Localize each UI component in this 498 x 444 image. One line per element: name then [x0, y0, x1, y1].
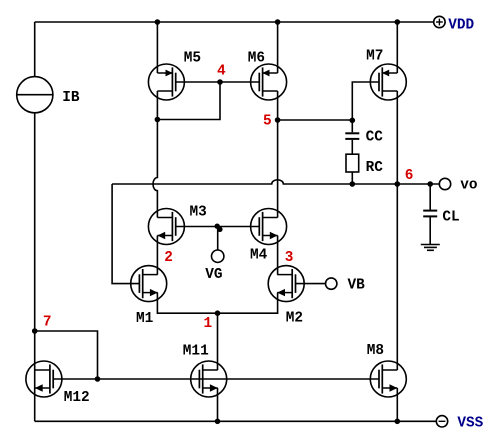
wire M8 source to bottom rail	[396, 388, 398, 421]
node 4	[217, 79, 223, 85]
terminal VDD	[434, 16, 445, 27]
wire node 6 to CL	[429, 184, 431, 210]
transistor M1	[131, 266, 167, 302]
wire column B: M6 source through node 5 to M4 drain	[277, 91, 279, 218]
bottom rail at M8	[395, 419, 401, 425]
wire M3-M4 gate line	[176, 226, 260, 228]
wire VG stem	[217, 227, 219, 250]
node 6 at RC	[350, 181, 356, 187]
svg-text:M12: M12	[64, 390, 90, 406]
transistor M11	[191, 361, 227, 397]
transistor M4	[251, 209, 287, 245]
svg-text:2: 2	[164, 250, 173, 266]
node on top rail at M6	[275, 19, 281, 25]
svg-text:M8: M8	[367, 343, 384, 359]
svg-text:M7: M7	[366, 49, 383, 65]
wire CC to RC	[351, 140, 353, 154]
wire column C: M7 source through node 6 to M8 drain	[396, 91, 398, 370]
wire RC to node 6	[351, 172, 353, 184]
terminal VB	[326, 278, 337, 289]
svg-text:vo: vo	[460, 177, 477, 193]
node 7 on rail	[32, 328, 38, 334]
node 4 jog junction	[155, 117, 161, 123]
svg-text:M2: M2	[286, 310, 303, 326]
wire column A: M5 source to M3 drain with hop over node-6 line	[153, 91, 157, 218]
wire M7 drain from rail	[396, 22, 398, 73]
capacitor CL	[423, 211, 437, 217]
transistor M12	[26, 361, 62, 397]
transistor M3	[148, 209, 184, 245]
wire M7 gate down to node 5	[352, 82, 379, 120]
svg-text:VG: VG	[205, 267, 222, 283]
svg-text:RC: RC	[366, 160, 384, 176]
resistor RC	[346, 154, 359, 172]
transistor M5	[148, 64, 184, 100]
capacitor CC	[345, 133, 359, 139]
wire node 3: M4 source to M2 drain	[277, 236, 279, 275]
node on top rail at M5	[155, 19, 161, 25]
current source IB	[17, 77, 53, 113]
bottom rail at M11	[215, 419, 221, 425]
svg-text:VSS: VSS	[457, 415, 483, 431]
wire node 1 drop to M11	[217, 313, 219, 370]
node 6 at CL	[427, 181, 433, 187]
terminal VSS	[436, 416, 447, 427]
wire node 1: M1 source, M2 source, bottom line	[157, 293, 277, 314]
svg-text:M6: M6	[248, 50, 265, 66]
svg-text:6: 6	[405, 168, 414, 184]
wire CL to ground	[429, 216, 431, 244]
svg-text:VB: VB	[348, 278, 366, 294]
transistor M8	[370, 361, 406, 397]
wire node 5 to capacitor CC	[351, 120, 353, 132]
svg-text:M11: M11	[183, 343, 209, 359]
M12 gate junction	[95, 376, 101, 382]
svg-text:CC: CC	[366, 129, 384, 145]
svg-text:M4: M4	[250, 248, 268, 264]
transistor M2	[268, 266, 304, 302]
wire gate line M5-M6 (node 4)	[176, 81, 260, 83]
svg-text:5: 5	[263, 114, 272, 130]
wire M2 gate to VB	[296, 283, 326, 285]
terminal VG	[212, 250, 224, 262]
wire M11 source to bottom rail	[217, 388, 219, 421]
wire node 4 jog down to M5 drain column	[157, 82, 220, 120]
svg-text:M1: M1	[136, 311, 154, 327]
wire node 6 line with hop over column B	[112, 180, 439, 184]
wire top rail VDD	[35, 21, 434, 23]
node on top rail at M7	[395, 19, 401, 25]
transistor M7	[370, 64, 406, 100]
wire feedback to M1 gate	[112, 184, 139, 284]
wire node 5 horizontal	[278, 119, 353, 121]
svg-text:3: 3	[285, 250, 294, 266]
wire M6 drain from rail	[277, 22, 279, 73]
wire bottom rail VSS	[35, 420, 437, 422]
transistor M6	[251, 64, 287, 100]
svg-text:IB: IB	[62, 90, 80, 106]
VG junction	[215, 224, 220, 229]
wire node 2: M3 source to M1 drain	[156, 236, 158, 275]
svg-text:VDD: VDD	[448, 18, 474, 34]
node 6 at column C	[395, 181, 401, 187]
wire M5 drain from rail	[156, 22, 158, 73]
svg-text:4: 4	[217, 64, 226, 80]
ground	[421, 245, 440, 251]
wire left rail	[34, 22, 36, 421]
node 5 left junction	[275, 117, 281, 123]
svg-text:M5: M5	[184, 50, 201, 66]
node 5 right junction	[350, 118, 356, 124]
svg-text:CL: CL	[442, 210, 459, 226]
wire gate bus M12-M11-M8	[53, 378, 379, 380]
terminal vo	[439, 178, 450, 189]
svg-text:1: 1	[204, 316, 213, 332]
svg-text:7: 7	[43, 315, 52, 331]
wire node 7	[35, 331, 98, 379]
node 1	[215, 310, 221, 316]
svg-text:M3: M3	[190, 205, 207, 221]
